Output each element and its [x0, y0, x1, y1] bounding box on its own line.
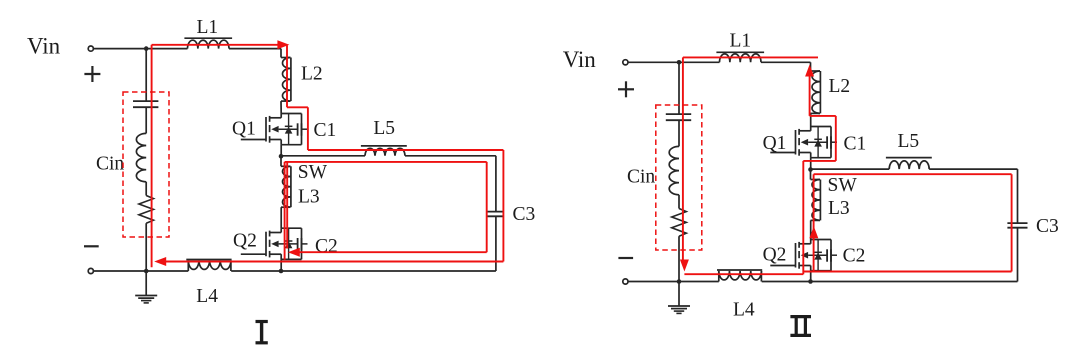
- red input-loop wire past Q1 (I): [307, 107, 309, 150]
- body diode of Q1 (II) (II): [817, 127, 819, 158]
- wire L5 to C3 (II): [929, 168, 1017, 170]
- svg-text:Cin: Cin: [627, 167, 655, 188]
- capacitor plates of Cin (I): [133, 100, 158, 102]
- red arrow right at L1 (I): [277, 40, 289, 49]
- wire Q1 to SW (II): [810, 158, 812, 170]
- red input-loop wire past Q2 (II): [802, 161, 804, 274]
- wire ESR to bottom (I): [145, 223, 147, 271]
- core bar of L3 (I): [290, 166, 292, 207]
- red input-loop wire top (II): [683, 56, 818, 58]
- terminal Vin- (I): [88, 268, 93, 273]
- minus sign (I): [84, 245, 99, 247]
- wire bottom right segment (I): [231, 270, 281, 272]
- red output-loop wire top (I): [285, 161, 487, 163]
- core bar of L3 (II): [819, 180, 821, 221]
- wire L3 to Q2 (II): [811, 219, 821, 221]
- core bar of L5 (II): [886, 157, 932, 159]
- ESR resistor of Cin (I): [139, 196, 154, 224]
- wire Q1 to SW (I): [280, 145, 282, 157]
- wire Cin cap to ESL (II): [678, 120, 680, 146]
- wire C3 to bottom (II): [1017, 228, 1019, 282]
- numeral I caption: [256, 320, 268, 323]
- wire Q2 to bottom (II): [810, 271, 812, 282]
- svg-text:L4: L4: [733, 300, 755, 321]
- dashed box around Cin (I): [123, 92, 169, 237]
- numeral II caption: [790, 315, 811, 318]
- svg-text:C2: C2: [843, 246, 866, 267]
- inductor L2 (I): [283, 58, 291, 102]
- wire Cin cap to ESL (I): [145, 107, 147, 133]
- plus sign (II): [618, 88, 634, 90]
- core bar of L4 (II): [717, 269, 762, 271]
- svg-text:Q2: Q2: [233, 231, 257, 252]
- core bar of L1 (I): [184, 37, 232, 39]
- svg-text:Cin: Cin: [96, 154, 124, 175]
- svg-text:Vin: Vin: [563, 47, 597, 72]
- inductor L3 (I): [283, 166, 291, 207]
- wire L2 to Q1 (II): [811, 112, 821, 114]
- red output-loop wire right side (I): [486, 162, 488, 252]
- wire ESL to ESR (I): [145, 182, 147, 196]
- red arrow left at Cin (I): [154, 257, 166, 266]
- wire ESR to bottom (II): [678, 236, 680, 281]
- red input-loop wire through L2 (I): [286, 46, 288, 108]
- red output-loop wire top (II): [814, 173, 1012, 175]
- svg-text:SW: SW: [828, 175, 858, 196]
- transistor Q2 (II): [770, 265, 795, 267]
- core bar of L2 (I): [290, 58, 292, 102]
- svg-text:L2: L2: [301, 64, 323, 85]
- wire L2 to Q1 (I): [281, 100, 291, 102]
- ESL coil of Cin (II): [669, 146, 679, 194]
- plus sign (I): [84, 73, 100, 75]
- wire into L2 (I): [281, 57, 291, 59]
- wire bottom left segment (II): [718, 271, 720, 282]
- red input-loop wire right side (I): [502, 150, 504, 262]
- inductor L3 (II): [812, 180, 820, 221]
- red input-loop wire left through Cin (II): [682, 57, 684, 262]
- wire Vin+ to node (II): [628, 61, 679, 63]
- red input-loop jog right (II): [810, 115, 836, 117]
- terminal Vin- (II): [623, 279, 628, 284]
- capacitor C2 (II): [826, 249, 828, 261]
- wire SW to L3 (II): [810, 170, 812, 180]
- wire node to Cin cap (II): [678, 62, 680, 114]
- wire Vin+ to node (I): [94, 48, 147, 50]
- svg-text:SW: SW: [298, 162, 328, 183]
- wire top left segment (I): [146, 48, 187, 50]
- inductor L5 (II): [889, 161, 929, 169]
- core bar of L4 (I): [186, 259, 231, 261]
- wire C3 to bottom (I): [495, 217, 497, 272]
- ESL coil of Cin (I): [136, 133, 146, 181]
- body diode of Q1: [288, 114, 290, 145]
- core bar of L2 (II): [819, 71, 821, 113]
- wire ESL to ESR (II): [678, 195, 680, 209]
- node SW (I): [279, 154, 284, 159]
- node SW (II): [808, 167, 813, 172]
- svg-text:L3: L3: [828, 198, 850, 219]
- wire top right segment (II): [761, 61, 811, 63]
- inductor L1 (I): [188, 40, 229, 48]
- wire Q2 to bottom (I): [280, 259, 282, 271]
- svg-text:Q1: Q1: [232, 119, 256, 140]
- svg-text:C2: C2: [315, 236, 338, 257]
- red output-loop return wire at L3 (I): [286, 162, 288, 249]
- red arrow down at Cin (II): [680, 260, 689, 272]
- red output-loop wire through L3 and Q2 (II): [813, 174, 815, 271]
- inductor L4 (II): [719, 271, 762, 280]
- wire top left segment (II): [679, 61, 720, 63]
- wire SW to L5 (I): [281, 155, 365, 157]
- transistor Q1 (II): [770, 152, 795, 154]
- svg-text:C3: C3: [1036, 216, 1059, 237]
- wire bottom left segment (I): [187, 260, 189, 271]
- ESR resistor of Cin (II): [672, 209, 687, 237]
- ground (II): [678, 282, 680, 306]
- svg-text:C1: C1: [314, 120, 337, 141]
- wire SW to L5 (II): [811, 168, 890, 170]
- svg-text:Q1: Q1: [763, 133, 787, 154]
- junction SW-bottom (I): [279, 269, 284, 274]
- svg-text:Vin: Vin: [27, 34, 61, 59]
- junction top-left (II): [677, 60, 682, 65]
- svg-text:L5: L5: [373, 118, 395, 139]
- minus sign (II): [618, 257, 633, 259]
- wire L3 to Q2 (I): [281, 206, 291, 208]
- svg-text:C3: C3: [513, 204, 536, 225]
- red arrow left at C2 (I): [288, 248, 300, 257]
- junction bottom-left (I): [144, 269, 149, 274]
- capacitor plates of Cin (II): [666, 113, 691, 115]
- svg-text:Q2: Q2: [763, 245, 787, 266]
- wire SW to L3 (I): [280, 156, 282, 166]
- capacitor C3 (I): [486, 211, 504, 213]
- transistor Q2: [241, 253, 266, 255]
- red input-loop jog right (I): [287, 106, 308, 108]
- terminal Vin+ (II): [623, 60, 628, 65]
- terminal Vin+ (I): [88, 46, 93, 51]
- red output-loop wire bottom (I): [299, 251, 487, 253]
- svg-text:C1: C1: [844, 134, 867, 155]
- svg-text:L3: L3: [298, 187, 320, 208]
- red output-loop wire right side (II): [1011, 174, 1013, 271]
- red input-loop wire bottom (II): [684, 273, 803, 275]
- body diode of Q2: [288, 228, 290, 259]
- svg-text:L5: L5: [898, 131, 920, 152]
- red output-loop wire through L3 and Q2 (I): [284, 162, 286, 260]
- svg-text:L1: L1: [730, 31, 752, 52]
- core bar of L5 (I): [361, 145, 407, 147]
- capacitor C3 (II): [1007, 222, 1027, 224]
- red output-loop wire bottom (II): [803, 271, 1011, 273]
- red input-loop wire over L5 (I): [308, 149, 504, 151]
- svg-text:L2: L2: [829, 76, 851, 97]
- body diode of Q2 (II) (II): [817, 240, 819, 271]
- transistor Q1: [241, 139, 266, 141]
- red input-loop wire left through Cin (I): [151, 45, 153, 267]
- red input-loop wire bottom (I): [165, 261, 503, 263]
- inductor L4 (I): [188, 260, 231, 269]
- wire into L2 (II): [811, 70, 821, 72]
- red input-loop wire top (I): [152, 44, 278, 46]
- junction top-left (I): [144, 46, 149, 51]
- inductor L2 (II): [812, 71, 820, 113]
- red input-loop wire around C1 (II): [835, 116, 837, 161]
- svg-text:L4: L4: [196, 286, 218, 307]
- wire top right segment (I): [229, 48, 281, 50]
- inductor L5 (I): [365, 148, 405, 155]
- red arrow up at Q2 (II): [809, 226, 818, 238]
- red input-loop wire through L2 (II): [809, 76, 811, 116]
- junction bottom-left (II): [677, 279, 682, 284]
- junction SW-bottom (II): [808, 279, 813, 284]
- wire node to Cin cap (I): [145, 49, 147, 101]
- svg-text:L1: L1: [197, 17, 219, 38]
- ground (I): [145, 271, 147, 295]
- dashed box around Cin (II): [656, 105, 702, 250]
- capacitor C1: [297, 123, 299, 135]
- red input-loop wire under Q1 (II): [803, 160, 836, 162]
- inductor L1 (II): [720, 54, 761, 62]
- wire L5 to C3 (I): [405, 155, 496, 157]
- core bar of L1 (II): [716, 51, 764, 53]
- capacitor C2: [297, 238, 299, 250]
- capacitor C1 (II): [826, 136, 828, 148]
- wire bottom right segment (II): [762, 281, 811, 283]
- red arrow up at L2 (II): [805, 65, 814, 77]
